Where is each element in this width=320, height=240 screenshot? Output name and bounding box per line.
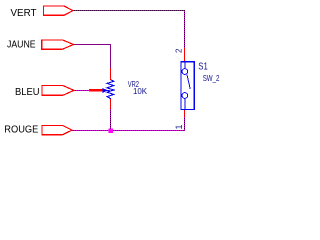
wire JAUNE terminal to VR2 top (horizontal then down) <box>74 45 111 69</box>
switch S1 lever <box>187 74 190 88</box>
wire VERT terminal to switch pin 2 (horizontal then down) <box>73 11 185 49</box>
svg-text:2: 2 <box>174 48 183 53</box>
potentiometer VR2 body (zigzag) <box>107 80 114 99</box>
svg-text:1: 1 <box>174 124 184 129</box>
switch S1 internal pin stub bottom <box>184 98 186 109</box>
svg-text:S1: S1 <box>198 61 208 73</box>
svg-text:VERT: VERT <box>11 8 37 19</box>
svg-text:SW_2: SW_2 <box>203 73 220 83</box>
wire VR2 bottom down to bottom rail <box>110 109 112 131</box>
pin 1 of switch S1 (red pin) <box>184 110 186 118</box>
svg-text:10K: 10K <box>133 87 148 96</box>
svg-text:BLEU: BLEU <box>15 87 40 98</box>
svg-text:ROUGE: ROUGE <box>4 124 38 135</box>
pin 3 of VR2 bottom (red pin) <box>110 99 112 110</box>
pin 2 of VR2 wiper (red pin) <box>89 89 103 92</box>
terminal VERT <box>44 6 74 15</box>
junction node (VR2 bottom joins ROUGE rail) <box>109 129 114 134</box>
terminal BLEU <box>42 86 74 96</box>
switch S1 body outline <box>181 62 194 110</box>
pin 1 of VR2 top (red pin) <box>110 68 112 80</box>
switch S1 contact circle (pin 1 side) <box>182 93 188 99</box>
terminal JAUNE <box>42 40 74 49</box>
wire BLEU terminal to VR2 wiper <box>74 90 89 92</box>
switch S1 contact circle (pin 2 side) <box>182 69 188 75</box>
terminal ROUGE <box>42 125 72 134</box>
pin 2 of switch S1 (red pin) <box>184 48 186 62</box>
svg-text:JAUNE: JAUNE <box>7 40 36 51</box>
switch S1 internal pin stub top <box>184 62 186 69</box>
wire switch pin 1 down to bottom rail <box>184 117 186 131</box>
wire ROUGE terminal to switch pin 1 (bottom horizontal rail) <box>72 130 185 132</box>
potentiometer VR2 wiper arrow <box>103 88 110 92</box>
